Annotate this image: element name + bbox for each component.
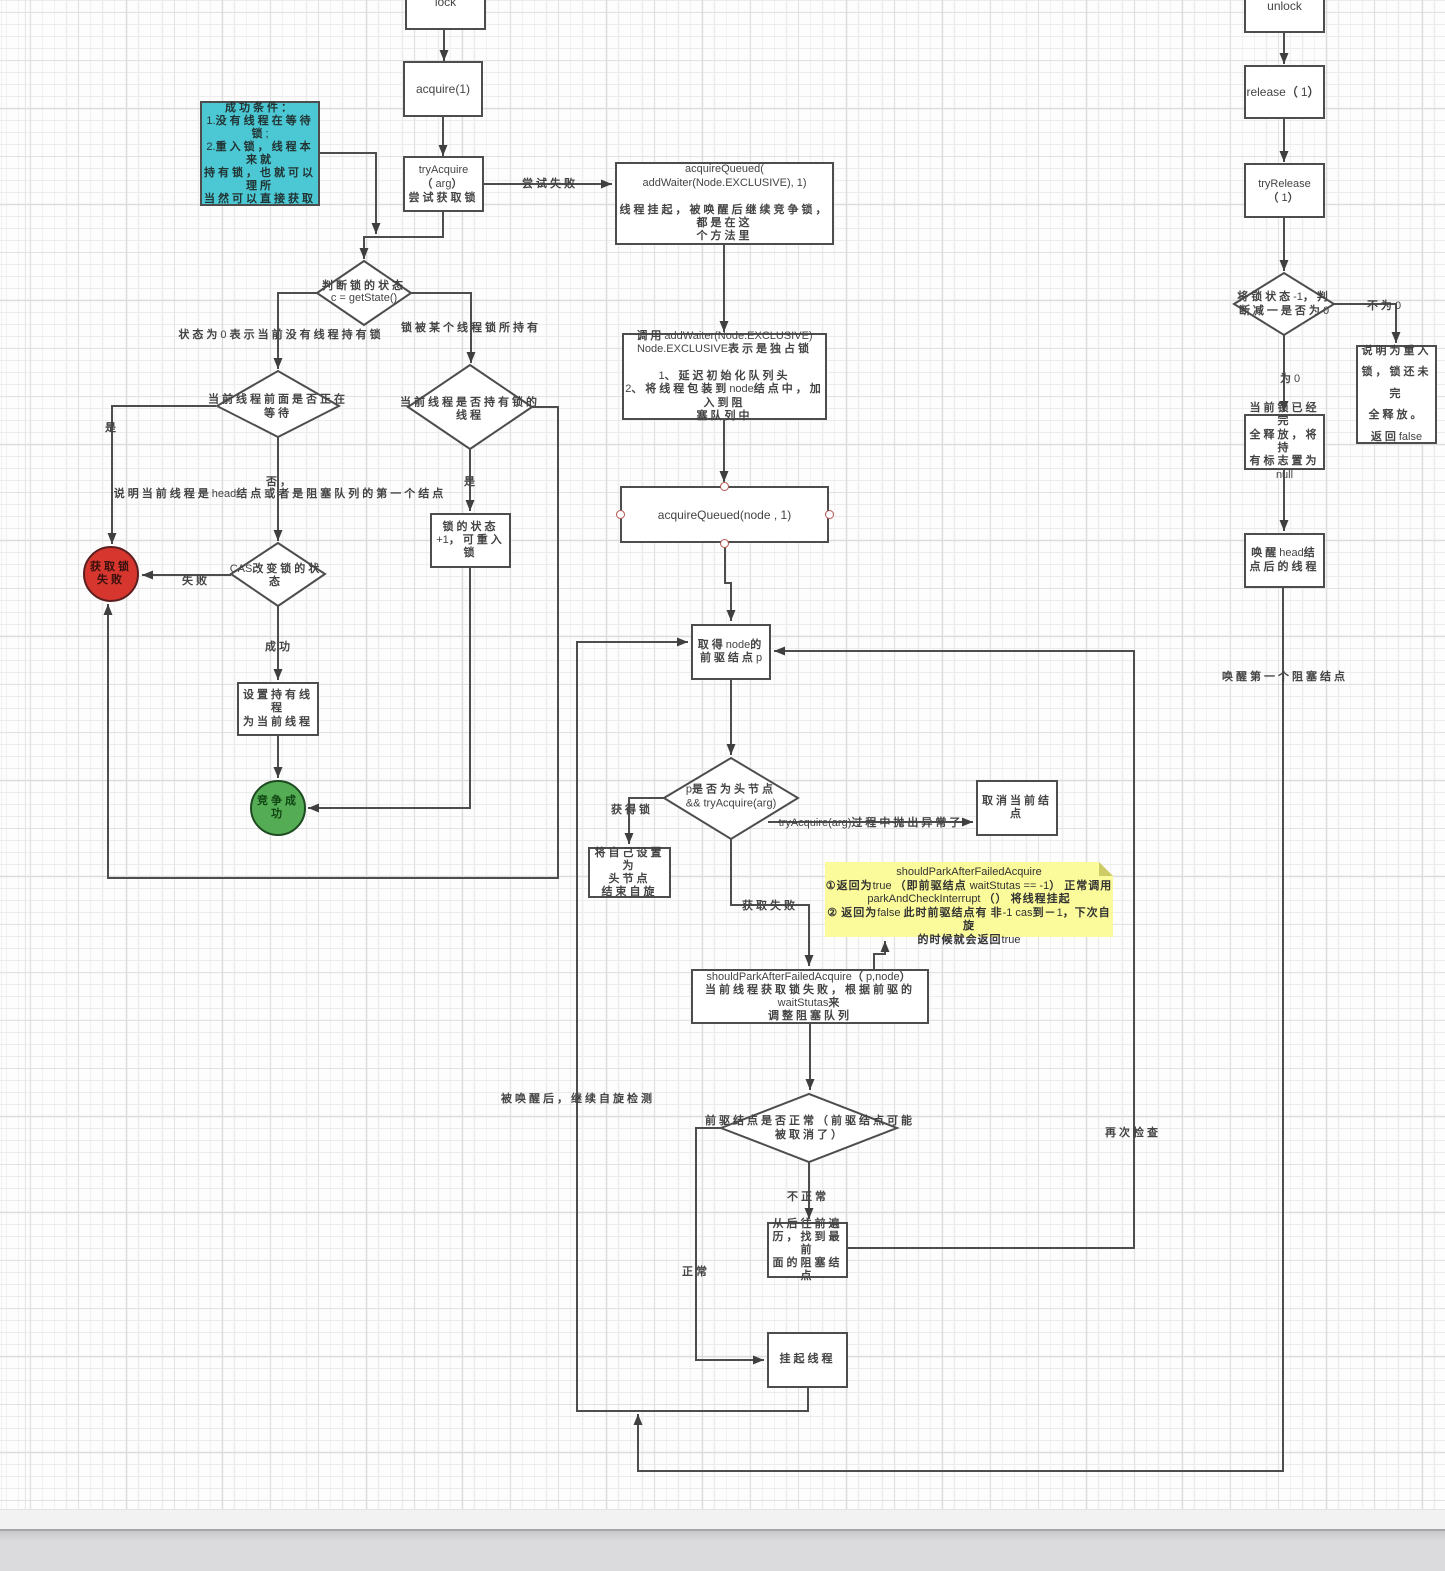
wire box park-thread loop back to box get-predecessor — [577, 638, 808, 1412]
wire decision waiting-ahead no to decision CAS — [274, 437, 283, 541]
label 被唤醒后继续自旋检测 — [501, 1090, 655, 1106]
wire box acquireQueued-node to box get-predecessor — [725, 543, 736, 621]
decision 判断锁的状态 getState — [317, 261, 411, 325]
label 获得锁 — [611, 801, 653, 817]
label 获取失败 — [742, 897, 798, 913]
terminal circle 获取锁失败 (red) — [83, 546, 139, 602]
label 锁被某个线程锁所持有 — [401, 319, 541, 335]
label 再次检查 — [1105, 1124, 1161, 1140]
process box 锁的状态+1可重入锁 — [430, 513, 511, 568]
wire box state-plus-1 to circle compete-success — [308, 568, 470, 813]
process box 唤醒head结点后的线程 — [1244, 533, 1325, 588]
decision label 当前线程前面是否正在等待 — [208, 394, 348, 421]
decision label 将锁状态-1判断减一是否为0 — [1237, 290, 1331, 318]
process box 取消当前结点 — [976, 780, 1058, 836]
wire decision head-tryAcquire fail to box shouldPark — [731, 839, 814, 966]
decision label 当前线程是否持有锁的线程 — [400, 397, 540, 422]
wire decision predecessor-normal normal to box park-thread — [696, 1128, 764, 1365]
process box 将自己设置为头节点结束自旋 — [588, 847, 671, 898]
wire box fully-released to box wake-head — [1280, 470, 1289, 531]
process box acquire(1) — [403, 61, 483, 117]
decision p是否为头节点且tryAcquire — [664, 758, 798, 839]
process box 调用addWaiter说明 — [622, 333, 827, 420]
wire unlock to release(1) — [1280, 33, 1289, 64]
page chrome gray band — [0, 1531, 1445, 1571]
wire tryRelease to decision state-minus-1 — [1280, 218, 1289, 271]
process box shouldParkAfterFailedAcquire(p,node) — [691, 969, 929, 1024]
decision 将锁状态-1判断是否为0 — [1234, 273, 1334, 335]
decision label CAS改变锁的状态 — [230, 563, 323, 589]
wire box set-owner to circle compete-success — [274, 736, 283, 778]
page chrome divider line — [0, 1529, 1445, 1531]
label 为0 — [1280, 370, 1300, 386]
decision label 判断锁的状态 c=getState() — [322, 280, 406, 304]
decision 当前线程是否持有锁的线程 — [408, 365, 532, 449]
wire decision predecessor-normal abnormal to box traverse-back — [805, 1162, 814, 1219]
wire note success-conditions to junction — [320, 153, 381, 234]
label 否说明当前线程是head结点 — [114, 476, 446, 500]
decision 当前线程前面是否正在等待 — [217, 371, 339, 437]
wire acquire(1) to tryAcquire — [439, 117, 448, 156]
wire box acquireQueued-addWaiter to box addWaiter-detail — [720, 245, 729, 332]
wire box addWaiter-detail to box acquireQueued-node — [720, 420, 729, 482]
wire box shouldPark to yellow note — [874, 941, 890, 969]
wire tryAcquire fail to box acquireQueued-addWaiter — [484, 180, 612, 189]
wire decision head-tryAcquire exception to box cancel-node — [768, 818, 973, 827]
page chrome bottom light strip — [0, 1509, 1445, 1529]
wire decision state-minus-1 zero to box fully-released — [1280, 335, 1289, 412]
process box 当前锁已经完全释放 — [1244, 414, 1325, 470]
wire decision head-tryAcquire got-lock to box set-head — [625, 798, 665, 844]
label 失败 — [182, 572, 210, 588]
wire decision CAS success to box set-owner — [274, 606, 283, 680]
wire decision holds-lock yes to box state-plus-1 — [466, 449, 475, 511]
label 状态为0表示当前没有线程持有锁 — [178, 326, 383, 342]
wire release(1) to tryRelease — [1280, 119, 1289, 162]
wire box traverse-back recheck loop to box get-predecessor — [774, 647, 1134, 1249]
decision 前驱结点是否正常 — [721, 1094, 897, 1162]
decision CAS改变锁的状态 — [231, 543, 325, 606]
label 唤醒第一个阻塞结点 — [1222, 668, 1348, 684]
wire decision holds-lock no loop to circle acquire-fail — [104, 407, 559, 878]
process box unlock — [1244, 0, 1325, 33]
note box 成功条件 (cyan) — [200, 101, 320, 206]
terminal circle 竞争成功 (green) — [250, 780, 306, 836]
wire lock to acquire(1) — [440, 30, 449, 61]
process box tryRelease(1) — [1244, 163, 1325, 218]
label 不正常 — [787, 1188, 829, 1204]
decision label p是否为头节点 && tryAcquire(arg) — [686, 784, 776, 811]
wire box get-predecessor to decision head-tryAcquire — [727, 680, 736, 755]
sticky note shouldParkAfterFailedAcquire (yellow) — [825, 862, 1113, 937]
process box tryAcquire(arg) 尝试获取锁 — [403, 156, 484, 212]
wire release flow wake-first-blocked loop — [634, 588, 1284, 1471]
process box 说明为重入锁返回false — [1356, 345, 1437, 444]
label 是 (waiting-ahead yes) — [105, 419, 119, 435]
process box release(1) — [1244, 65, 1325, 119]
process box 设置持有线程为当前线程 — [237, 682, 319, 736]
process box acquireQueued(addWaiter(Node.EXCLUSIVE),1) — [615, 162, 834, 245]
label tryAcquire(arg)过程中抛出异常了 — [779, 814, 964, 830]
wire decision getState left branch to decision waiting-ahead — [274, 293, 318, 369]
connection ports of acquireQueued(node,1) — [720, 482, 729, 491]
label 成功 — [265, 638, 293, 654]
label 不为0 — [1367, 297, 1401, 313]
wire decision waiting-ahead yes to circle acquire-fail — [108, 406, 217, 544]
label 尝试失败 — [522, 175, 578, 191]
process box 取得node的前驱结点p — [691, 624, 771, 680]
wire box shouldPark to decision predecessor-normal — [806, 1024, 815, 1090]
wire tryAcquire to decision getState — [360, 212, 444, 259]
process box acquireQueued(node,1) selected — [620, 486, 829, 543]
label 是 (holds-lock yes) — [464, 473, 478, 489]
wire decision getState right branch to decision holds-lock — [411, 293, 476, 363]
process box 挂起线程 — [767, 1332, 848, 1388]
process box 从后往前遍历找到最前面的阻塞结点 — [767, 1222, 848, 1278]
wire decision CAS fail to circle acquire-fail — [142, 571, 231, 580]
wire decision state-minus-1 not-zero to box reentrant-note — [1334, 304, 1401, 343]
process box lock — [405, 0, 486, 30]
label 正常 — [682, 1263, 710, 1279]
decision label 前驱结点是否正常 — [705, 1114, 915, 1142]
